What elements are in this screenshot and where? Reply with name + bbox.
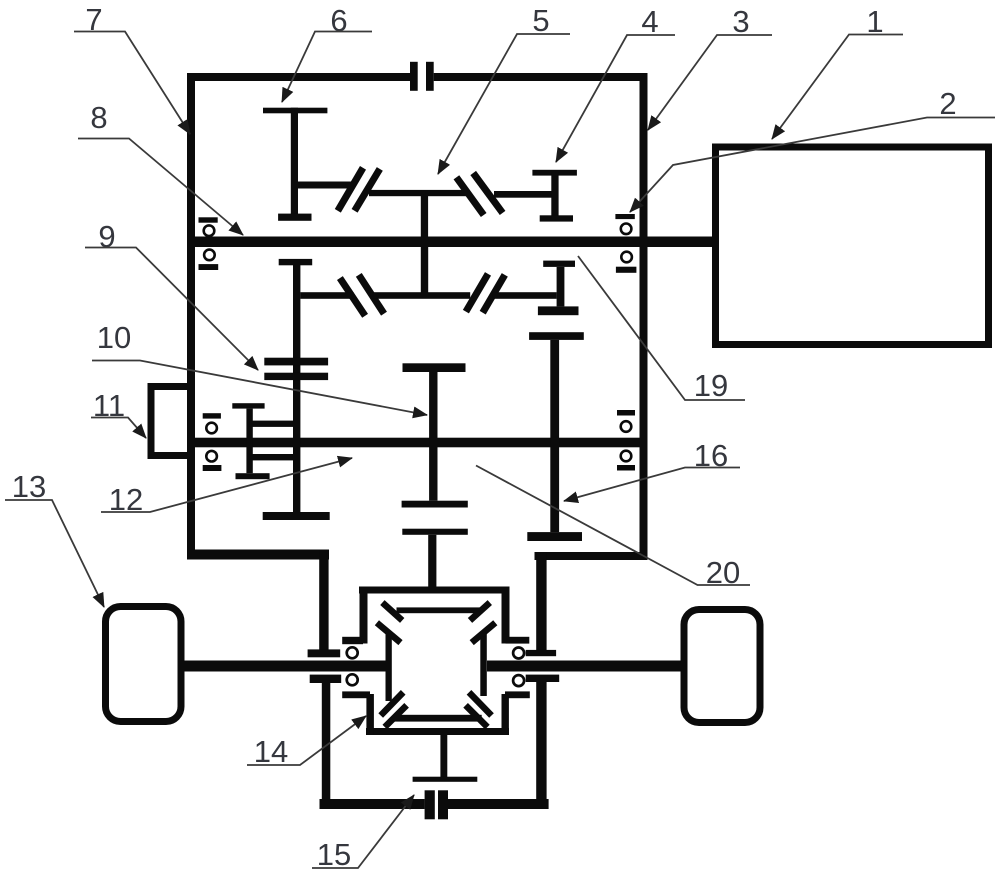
bevel mesh bottom-left (381, 692, 407, 727)
shaft 2 (second shaft) (190, 438, 648, 448)
bearing right shaft2 below (617, 451, 635, 471)
differential bearing circle left above (347, 647, 358, 658)
svg-text:2: 2 (939, 86, 956, 121)
bottom line right (448, 799, 549, 809)
housing top edge left part (187, 73, 410, 81)
svg-text:8: 8 (90, 100, 107, 135)
label 19 (578, 256, 745, 403)
small box 11 (148, 383, 193, 459)
bearing left shaft1 above 8 (199, 217, 218, 236)
shaft 1 (input shaft) (190, 237, 712, 248)
label 7 (74, 2, 190, 134)
housing left edge 7 (187, 73, 195, 560)
gear 6 (263, 108, 327, 221)
bearing right shaft2 above (617, 410, 635, 432)
svg-text:9: 9 (98, 219, 115, 254)
row1 left friction clutch slashes (338, 168, 380, 211)
label 5 (438, 3, 570, 174)
label 8 (78, 100, 243, 235)
left dropdown vertical upper (319, 550, 328, 650)
gear 9 bottom bar (263, 512, 330, 520)
svg-text:15: 15 (317, 837, 351, 872)
clutch 15 bars (425, 790, 448, 819)
row1 right friction clutch slashes 5 (456, 173, 502, 215)
right dropdown vertical lower (536, 682, 546, 809)
clutch 15 plate (413, 777, 478, 782)
svg-text:13: 13 (12, 469, 46, 504)
row2 left friction clutch slashes (340, 275, 384, 316)
label 13 (5, 469, 104, 607)
bearing left shaft1 below (199, 250, 219, 270)
gear 12 sleeve (232, 403, 293, 479)
label 1 (772, 4, 903, 139)
small gear 19 right (538, 261, 579, 316)
housing top edge right part (434, 73, 648, 81)
label 14 (247, 716, 366, 769)
axle left segment (181, 661, 389, 672)
label 15 (312, 795, 414, 872)
svg-text:4: 4 (641, 4, 658, 39)
gear 4 (532, 170, 577, 222)
svg-text:3: 3 (732, 4, 749, 39)
housing bottom left segment (187, 550, 329, 560)
differential pinion bottom (394, 715, 482, 722)
bevel mesh top-right (470, 603, 495, 643)
clutch on top edge (410, 62, 434, 91)
row2 middle line (370, 292, 470, 299)
housing bottom right segment (535, 552, 648, 560)
bearing left shaft2 above (203, 413, 221, 433)
left dog bar below axle (310, 675, 342, 683)
label 6 (282, 3, 372, 102)
svg-text:5: 5 (532, 3, 549, 38)
output gear pair 20 lower bar (402, 529, 468, 535)
bearing right shaft1 above 2 (615, 214, 634, 234)
differential bearing circle right below (513, 675, 524, 686)
svg-text:6: 6 (330, 3, 347, 38)
bearing left shaft2 below (203, 451, 222, 471)
stem to differential (428, 535, 436, 589)
right wheel (684, 610, 760, 723)
differential side gear right (480, 632, 487, 696)
differential pinion top (397, 607, 482, 613)
bevel mesh bottom-right (466, 692, 492, 727)
gear 9 upper bar (279, 259, 313, 265)
differential bearing circle left below (347, 674, 358, 685)
left wheel 13 (106, 607, 182, 722)
label 20 (476, 466, 750, 591)
left dropdown vertical lower (322, 683, 331, 809)
row1 middle line (369, 190, 467, 196)
motor box 1 (716, 147, 989, 345)
label 11 (91, 388, 146, 438)
row2 right friction clutch slashes (466, 274, 505, 313)
row1 right line to gear4 (494, 191, 555, 198)
bevel mesh top-left (377, 603, 402, 643)
gear 10 (402, 363, 468, 507)
right dropdown vertical upper (536, 552, 546, 650)
row1 line from gear6 (296, 182, 355, 189)
row2 line from gear9 (300, 292, 353, 299)
bottom line left (320, 799, 425, 809)
right dog bar above axle (526, 650, 556, 656)
row1 central vertical to shaft1 (421, 193, 428, 237)
svg-text:14: 14 (254, 734, 288, 769)
label 4 (556, 4, 675, 162)
stem cage to clutch 15 (440, 735, 447, 779)
label 10 (92, 320, 427, 415)
differential side gear left (386, 633, 392, 701)
right dog bar below axle (526, 675, 560, 682)
label 12 (101, 458, 352, 517)
gear 9 double bars (264, 358, 328, 380)
label 9 (85, 219, 258, 370)
svg-text:19: 19 (694, 368, 728, 403)
differential cage 14 (342, 587, 530, 736)
svg-text:10: 10 (97, 320, 131, 355)
gear 9 stem (293, 265, 300, 514)
label 16 (564, 438, 740, 501)
left dog bar above axle (308, 649, 341, 657)
row2 central vertical to shaft1 (421, 247, 428, 296)
row2 right line (492, 292, 556, 299)
axle right segment (487, 661, 681, 672)
differential bearing circle right above (513, 648, 524, 659)
housing right edge 3 (640, 73, 648, 560)
label 2 (630, 86, 995, 212)
gear 16 (527, 332, 584, 541)
label 3 (648, 4, 772, 130)
bearing right shaft1 below (616, 252, 637, 273)
